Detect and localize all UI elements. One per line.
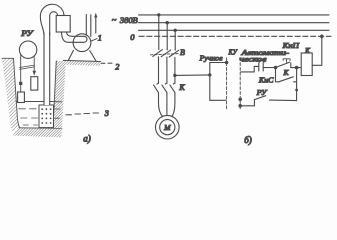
KnP right lead <box>291 67 297 69</box>
svg-text:КнП: КнП <box>281 41 299 50</box>
contactor K contact 2 <box>162 83 167 92</box>
pump volute circle <box>73 34 91 52</box>
well bottom (hatched) <box>13 128 63 138</box>
contactor coil K <box>301 53 312 76</box>
control branch dot <box>208 73 211 76</box>
pump stand legs <box>68 50 96 61</box>
junction dot phase 2 <box>166 21 169 24</box>
K aux right lead <box>294 81 297 83</box>
manual branch wire <box>210 62 227 64</box>
neutral junction dot <box>320 35 324 39</box>
level relay pulley <box>19 41 36 58</box>
svg-text:Ручное: Ручное <box>199 53 224 62</box>
switch B link (dashed) <box>150 54 179 55</box>
water dashes row 3 <box>23 124 38 126</box>
svg-text:КУ: КУ <box>228 47 238 56</box>
level line 3 (dashed) <box>66 113 99 115</box>
ground surface band (hatched, right of well) <box>63 60 101 66</box>
coil to neutral wire <box>312 36 322 65</box>
KnS row lead <box>241 66 259 72</box>
suction strainer box (stippled) <box>39 105 54 128</box>
phase bus line 2 <box>139 22 330 24</box>
switch B blade 1 <box>153 50 163 57</box>
svg-text:М: М <box>163 123 171 132</box>
svg-text:КнС: КнС <box>258 76 275 85</box>
switch lever bars <box>20 65 35 69</box>
counterweight <box>31 77 38 90</box>
svg-text:а): а) <box>83 133 91 143</box>
auto branch wire <box>210 99 226 101</box>
KnP right plate <box>290 63 292 68</box>
motor M outer circle <box>156 115 180 139</box>
svg-text:3: 3 <box>104 109 109 118</box>
svg-text:ческое: ческое <box>240 54 268 63</box>
svg-text:К: К <box>178 83 185 92</box>
KU contact dot (manual position) <box>225 61 229 65</box>
motor leads <box>159 93 175 117</box>
KnP left junction dot <box>274 66 278 70</box>
svg-text:К: К <box>282 68 289 77</box>
water dashes row 1 <box>19 108 61 110</box>
pump discharge pipe <box>86 15 91 37</box>
contactor K contact 1 <box>154 83 159 92</box>
riser pipe <box>44 20 50 105</box>
pole 2 middle wire <box>166 57 168 83</box>
svg-text:РУ: РУ <box>20 29 34 38</box>
K aux left lead <box>276 68 279 82</box>
well left wall (hatched) <box>2 58 20 132</box>
wire to coil <box>297 67 302 69</box>
flow arrow <box>94 13 97 33</box>
contactor K contact 3 <box>170 83 175 92</box>
rope stop dot <box>19 82 22 85</box>
K aux blade <box>279 77 293 82</box>
pole 3 upper wire <box>174 30 176 50</box>
rope arrow (down) <box>33 71 37 76</box>
svg-text:0: 0 <box>130 32 135 42</box>
KnS actuator <box>258 60 265 62</box>
KU auto contact dot lower <box>238 104 242 108</box>
switch B blade 3 <box>169 50 179 57</box>
water dashes row 2 <box>21 117 60 119</box>
svg-text:~: ~ <box>112 15 117 25</box>
counterweight rope (right) <box>33 56 35 71</box>
well right wall (hatched) <box>53 61 66 129</box>
KU auto contact dot upper <box>238 98 242 102</box>
pole 2 upper wire <box>166 23 168 50</box>
switch B blade 2 <box>161 50 171 57</box>
svg-text:2: 2 <box>115 62 119 71</box>
junction dot phase 1 <box>157 13 160 16</box>
right vertical (RU/aux return) <box>296 68 298 101</box>
selector KU position line 1 (dashed) <box>226 58 228 111</box>
float rope (left) <box>20 55 22 92</box>
svg-text:380В: 380В <box>119 15 138 25</box>
control branch vertical <box>209 63 211 101</box>
right junction dot <box>295 66 299 70</box>
svg-text:К: К <box>304 46 311 55</box>
wire junction dot on return <box>295 89 298 92</box>
KnS contact plates <box>259 63 263 71</box>
svg-text:1: 1 <box>98 33 102 42</box>
level line 2 (dashed) <box>101 62 112 64</box>
RU contact right lead <box>270 99 297 102</box>
pole 1 upper wire <box>158 15 160 50</box>
motor M inner circle <box>160 120 175 135</box>
neutral line 0 (dashed) <box>139 35 331 37</box>
phase bus line 1 <box>139 14 330 16</box>
discharge arch pipe <box>40 4 64 35</box>
svg-text:В: В <box>180 48 185 57</box>
svg-text:РУ: РУ <box>256 88 268 97</box>
float <box>18 92 25 103</box>
tap junction dot <box>173 74 176 77</box>
selector KU position line 2 (dashed) <box>239 58 241 111</box>
pole 3 middle wire <box>174 57 176 83</box>
air chamber box <box>56 16 70 33</box>
wire from KU to RU contact <box>240 100 254 106</box>
elbow pipe from box to pump <box>62 32 85 42</box>
label 1 pointer <box>91 39 97 42</box>
RU contact blade <box>254 96 265 100</box>
pipe end cap (hook in pump) <box>81 36 88 42</box>
svg-text:б): б) <box>244 135 252 145</box>
KnP contact blade <box>277 62 290 67</box>
tap wire to control circuit <box>175 74 210 77</box>
water surface line <box>16 101 62 103</box>
KnP actuator <box>283 59 290 63</box>
junction dot phase 3 <box>174 29 177 32</box>
phase bus line 3 <box>139 29 330 31</box>
KnS right lead <box>263 67 275 69</box>
pole 1 middle wire <box>158 57 160 83</box>
